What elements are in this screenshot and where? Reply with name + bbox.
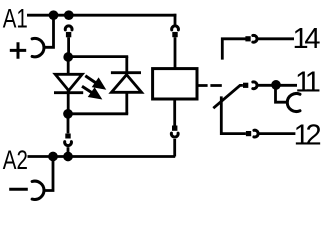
polarity minus sign (9, 188, 28, 191)
plug connection A1 to LED branch: socket arc (65, 26, 72, 30)
wire A2 rail (28, 155, 176, 158)
wire from dot1 down to A1 clamp (43, 15, 54, 47)
node dot3 (63, 52, 73, 62)
plug terminal 11: pin square (243, 83, 248, 88)
clamp contact A1 (32, 38, 44, 56)
plug terminal 12: pin square (246, 131, 251, 136)
wire plug to coil (174, 37, 177, 68)
LED arrow 1 (85, 76, 105, 89)
wire from dot5 down to A2 clamp (43, 157, 53, 191)
node dot1 on A1 rail (49, 10, 59, 20)
LED D1 cathode bar (54, 91, 83, 94)
terminal label 11 (295, 67, 320, 99)
node dot2 on A1 rail (64, 10, 74, 20)
wire contact 14 fixed (222, 39, 245, 60)
plug connection coil bottom: pin square (172, 126, 177, 131)
contact lever (movable) (213, 85, 243, 108)
terminal label A2 (3, 145, 28, 175)
wire to label 12 (258, 132, 295, 135)
plug connection coil top: pin square (172, 32, 177, 37)
wire plug to dot6 (67, 147, 70, 156)
wire dot down to clamp 11 (276, 85, 289, 102)
plug terminal 11: socket arc (253, 82, 257, 89)
actuator dashed link coil to contact (197, 84, 222, 87)
svg-text:A2: A2 (3, 145, 28, 175)
node dot on 11 wire (271, 80, 281, 90)
wire A1 rail (27, 14, 176, 17)
wire diode branch vertical top (125, 57, 128, 73)
node dot5 on A2 rail (48, 152, 58, 162)
terminal label 14 (293, 23, 321, 55)
terminal label A1 (3, 4, 28, 34)
LED D1 triangle (55, 74, 82, 90)
freewheeling diode D2 cathode bar (111, 71, 141, 74)
wire dot4 down to plug (67, 114, 70, 134)
wire coil bottom to plug (173, 99, 176, 126)
freewheeling diode D2 triangle (111, 75, 141, 93)
plug connection A1 to LED branch: pin square (66, 32, 71, 37)
wire contact 12 fixed stub (221, 96, 246, 133)
LED arrow 2 (82, 86, 101, 99)
plug terminal 14: socket arc (253, 35, 257, 42)
plug terminal 12: socket arc (254, 130, 258, 137)
wire LED top rail (68, 55, 128, 58)
plug connection coil bottom: socket arc (171, 133, 178, 137)
svg-text:A1: A1 (3, 4, 28, 34)
wire plug to dot3 (67, 37, 70, 53)
wire to label 11 (257, 84, 297, 87)
node dot6 on A2 rail (63, 152, 73, 162)
wire to label 14 (258, 37, 294, 40)
plug connection coil top: socket arc (172, 26, 179, 30)
wire LED branch vertical (67, 57, 70, 114)
plug connection LED branch to A2: pin square (65, 134, 70, 139)
wire diode branch vertical bottom (125, 92, 128, 114)
relay coil K1 (153, 69, 197, 99)
svg-text:11: 11 (295, 67, 320, 99)
wire coil plug down to A2 rail (173, 139, 176, 157)
wire LED bottom rail (68, 112, 128, 115)
polarity plus sign (10, 42, 26, 59)
svg-text:12: 12 (294, 120, 321, 152)
node dot4 (63, 109, 73, 119)
svg-text:14: 14 (293, 23, 321, 55)
plug terminal 14: pin square (245, 36, 250, 41)
clamp contact A2 (32, 181, 44, 199)
wire A1 rail corner down to coil plug (174, 14, 177, 25)
plug connection LED branch to A2: socket arc (65, 142, 72, 146)
clamp contact 11 (287, 93, 300, 111)
terminal label 12 (294, 120, 321, 152)
